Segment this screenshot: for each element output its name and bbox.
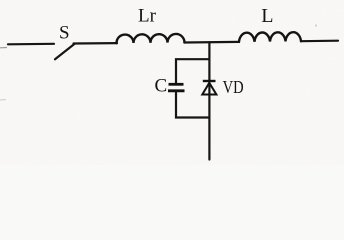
svg-text:S: S [59, 23, 70, 44]
diode VD triangle [202, 83, 216, 95]
switch S blade [55, 44, 75, 59]
scan artifact left edge [0, 47, 7, 49]
svg-text:VD: VD [223, 77, 244, 97]
svg-text:Lr: Lr [138, 6, 157, 27]
wire capacitor top branch [176, 59, 209, 84]
capacitor C plates [169, 83, 184, 86]
wire right segment [301, 40, 338, 43]
wire main vertical from junction [208, 42, 210, 159]
wire switch to Lr [74, 42, 118, 45]
wire left segment [8, 43, 54, 46]
scan artifact bottom left [0, 99, 6, 101]
svg-text:L: L [261, 5, 273, 27]
inductor L [239, 32, 301, 42]
diode VD cathode bar [203, 80, 216, 82]
scan artifact faint dot top right [315, 24, 317, 26]
inductor Lr [116, 34, 184, 43]
wire Lr to L with node junction [184, 41, 239, 44]
svg-text:C: C [155, 76, 168, 97]
wire capacitor bottom branch [176, 92, 209, 118]
